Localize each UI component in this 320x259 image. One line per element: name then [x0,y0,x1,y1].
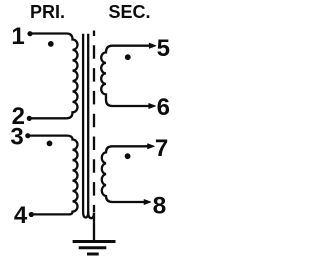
svg-text:5: 5 [157,35,170,62]
shield-to-ground join (u curve) [88,212,94,219]
arrowhead at pin 3 [25,133,30,138]
ground bar 1 [73,240,116,243]
svg-text:PRI.: PRI. [30,2,65,22]
arrowhead at pin 2 [27,116,32,121]
shield (dashed vertical line) [93,31,95,213]
ground stem [93,213,95,242]
svg-text:SEC.: SEC. [108,2,150,22]
arrowhead at pin 8 [144,200,151,205]
arrowhead at pin 1 [27,31,32,36]
ground bar 2 [79,246,107,249]
secondary winding 5-6 (wire from 5, coil, wire to 6) [101,46,150,106]
arrowhead at pin 5 [149,43,156,48]
svg-text:4: 4 [14,202,28,229]
secondary winding 7-8 (wire from 7, coil, wire to 8) [102,146,149,202]
svg-text:8: 8 [153,193,167,220]
svg-text:6: 6 [157,94,170,121]
primary winding 1-2 (wire from 1, coil, wire to 2) [29,34,78,119]
arrowhead at pin 7 [148,144,155,149]
phase dot near pin 5 [125,54,131,60]
phase dot near pin 1 [48,41,54,47]
svg-text:7: 7 [155,135,168,162]
core lines (two vertical bars joined at bottom) [83,34,88,218]
arrowhead at pin 6 [149,104,156,109]
svg-text:3: 3 [10,124,23,151]
arrowhead at pin 4 [29,212,34,217]
primary winding 3-4 (wire from 3, coil, wire to 4) [27,136,78,215]
phase dot near pin 7 [125,153,131,159]
ground bar 3 [87,253,99,256]
phase dot near pin 3 [47,141,53,147]
svg-text:1: 1 [11,23,24,50]
